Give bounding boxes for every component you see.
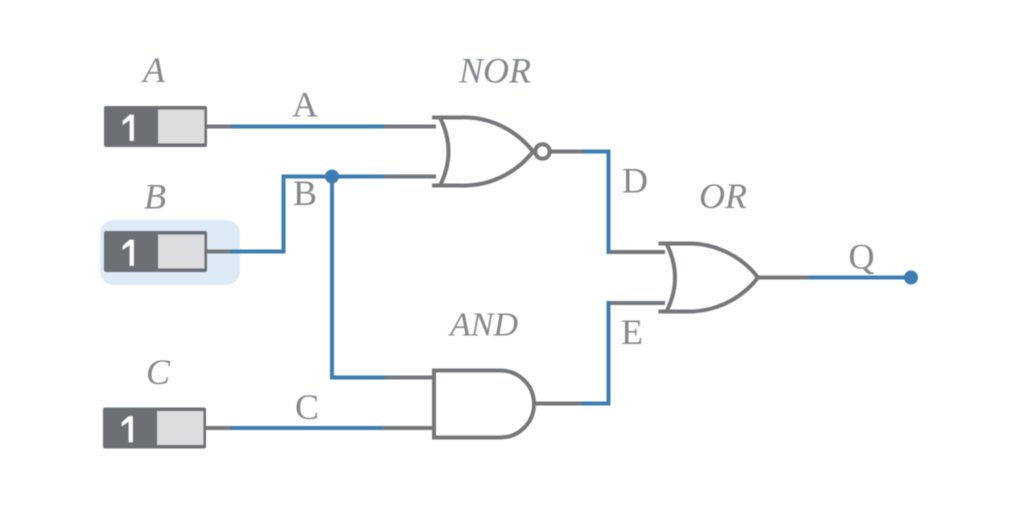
svg-text:A: A — [141, 50, 166, 90]
wire net C (blue, switch C to AND input 2) — [229, 426, 382, 430]
switch A toggle lever — [158, 110, 205, 144]
svg-text:C: C — [295, 387, 319, 427]
wire net B branch down to AND input 1 (blue) — [332, 177, 385, 378]
switch A body — [104, 106, 207, 147]
highlight halo around switch B — [100, 220, 240, 285]
wire stub OR input 2 — [611, 301, 666, 305]
output terminal dot Q — [904, 271, 918, 285]
wire terminal stub switch C output — [203, 426, 231, 430]
wire net D (blue, NOR output down to OR input 1) — [583, 152, 609, 255]
svg-text:E: E — [621, 312, 643, 352]
wire stub OR output — [758, 276, 809, 280]
switch C frame — [103, 408, 206, 449]
svg-text:NOR: NOR — [458, 51, 531, 91]
NOR gate inversion bubble — [535, 144, 550, 159]
junction node B — [325, 170, 339, 184]
switch C state value label 1 — [122, 416, 133, 442]
svg-text:D: D — [622, 161, 648, 201]
switch B state value label 1 — [123, 240, 134, 266]
switch A frame — [104, 106, 207, 147]
svg-text:A: A — [292, 85, 318, 125]
wire stub OR input 1 — [611, 250, 666, 254]
wire stub NOR output — [552, 150, 584, 154]
switch B toggle lever — [158, 235, 205, 269]
svg-text:C: C — [146, 352, 171, 392]
wire net Q (blue, OR output) — [809, 276, 907, 280]
switch C body — [103, 408, 206, 449]
wire net A (blue segment, switch A to NOR input 1) — [230, 125, 384, 129]
wire stub AND input 1 — [385, 376, 435, 380]
wire stub AND input 2 — [382, 426, 434, 430]
switch C toggle lever — [157, 411, 204, 445]
svg-text:OR: OR — [699, 176, 747, 216]
wire terminal stub switch A output — [205, 125, 231, 129]
wire stub NOR input 2 — [384, 175, 436, 179]
wire stub AND output — [534, 402, 581, 406]
wire terminal stub switch B output — [205, 250, 231, 254]
svg-text:Q: Q — [849, 237, 875, 277]
AND gate body — [434, 370, 534, 437]
OR gate body — [659, 243, 759, 311]
switch B frame — [104, 231, 207, 272]
NOR gate body — [432, 117, 533, 185]
wire net B (blue, switch B up to NOR input 2) — [229, 177, 384, 252]
switch B body — [104, 231, 207, 272]
svg-text:B: B — [293, 173, 317, 213]
svg-text:AND: AND — [448, 307, 518, 344]
switch A state value label 1 — [123, 115, 134, 141]
svg-text:B: B — [144, 177, 166, 217]
wire stub NOR input 1 — [384, 125, 436, 129]
wire net E (blue, AND output up to OR input 2) — [581, 301, 609, 404]
